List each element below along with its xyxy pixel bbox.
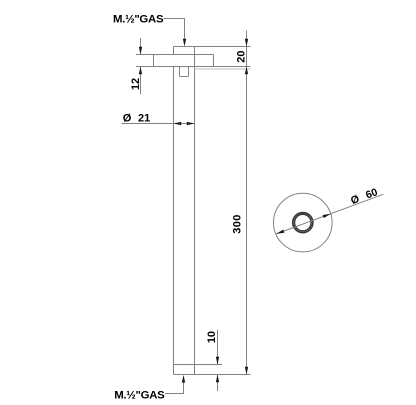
arrow top leader pointing down xyxy=(183,39,186,47)
flange right wall xyxy=(213,55,215,67)
arrow dim 21 left pointing left xyxy=(174,122,182,125)
svg-text:21: 21 xyxy=(138,113,150,125)
dimension line diameter 21 horizontal xyxy=(122,123,195,125)
detail circle flange outer diameter 60 xyxy=(274,193,333,252)
arrow dim 21 right pointing right xyxy=(187,122,195,125)
dimension line 10 lower segment xyxy=(217,375,219,392)
inner notch bottom edge xyxy=(180,76,189,78)
dimension line diameter 60 diagonal xyxy=(276,194,383,234)
arrow dim 60 upper-right pointing up-right xyxy=(323,214,331,218)
inner notch left wall xyxy=(179,67,181,77)
dimension line 12 upper segment xyxy=(140,38,142,55)
arrow dim 20 bottom and 300 top pointing up xyxy=(245,67,248,75)
dimension line 20 and 300 vertical xyxy=(246,31,248,375)
detail ring outer dark circle xyxy=(293,213,313,233)
svg-text:300: 300 xyxy=(232,214,244,234)
svg-text:M.½"GAS: M.½"GAS xyxy=(113,13,164,25)
tube top edge with extension line to dimension 20 xyxy=(174,46,251,48)
arrow dim 300 bottom pointing down xyxy=(245,367,248,375)
arrow dim 20 top pointing down xyxy=(245,39,248,47)
bottom thread division line with extension for dimension 10 xyxy=(174,364,223,366)
arrow dim 10 top pointing down xyxy=(216,357,219,365)
svg-text:10: 10 xyxy=(206,331,218,343)
svg-text:12: 12 xyxy=(130,78,142,90)
flange bottom edge with extensions both sides xyxy=(136,66,251,68)
leader line bottom M half gas xyxy=(165,381,184,394)
tube body left wall lower segment xyxy=(173,67,175,375)
svg-text:M.½"GAS: M.½"GAS xyxy=(114,390,165,402)
svg-text:60: 60 xyxy=(364,186,379,201)
leader line top M half gas xyxy=(164,19,185,41)
tube body right wall xyxy=(194,47,196,375)
detail ring inner dark circle xyxy=(295,214,312,231)
svg-text:Ø: Ø xyxy=(123,113,132,125)
arrow dim 12 top pointing down xyxy=(139,47,142,55)
arrow dim 10 bottom pointing up xyxy=(216,375,219,383)
inner notch right wall xyxy=(188,67,190,77)
dimension line 12 lower segment xyxy=(140,67,142,95)
arrow bottom leader pointing up xyxy=(182,375,185,383)
flange left wall xyxy=(153,55,155,67)
flange top edge with left extension line for dimension 12 xyxy=(136,54,214,56)
tube bottom edge with extension to dimension 300 xyxy=(174,374,251,376)
dimension line 10 upper segment xyxy=(217,330,219,365)
arrow dim 12 bottom pointing up xyxy=(139,67,142,75)
arrow dim 60 lower-left pointing down-left xyxy=(276,230,284,234)
faint inner shoulder extension line xyxy=(195,68,251,70)
svg-text:20: 20 xyxy=(235,51,247,63)
tube body left wall upper segment xyxy=(173,47,175,55)
svg-text:Ø: Ø xyxy=(349,193,361,207)
